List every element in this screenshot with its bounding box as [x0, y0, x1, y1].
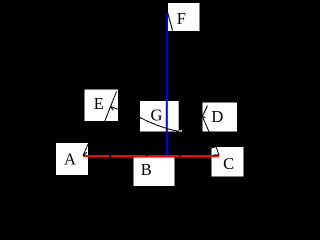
black gap in red line near x=110 — [110, 155, 112, 157]
leader strokes of D — [202, 106, 209, 133]
svg-text:G: G — [151, 106, 163, 125]
black curve through G box — [140, 118, 179, 132]
label box F — [168, 3, 200, 31]
red line AC (horizontal) — [83, 155, 219, 157]
leader arrow of E — [105, 91, 118, 121]
svg-text:B: B — [141, 160, 152, 179]
label box G — [140, 101, 179, 132]
label box E — [85, 90, 119, 122]
svg-text:D: D — [211, 107, 223, 126]
leader arrow of A — [83, 144, 88, 156]
blue line BF (vertical) — [166, 14, 168, 155]
label box C — [212, 147, 244, 177]
label box D — [203, 103, 238, 132]
svg-text:E: E — [94, 94, 104, 113]
svg-text:F: F — [177, 9, 186, 28]
svg-text:A: A — [64, 149, 76, 168]
leader line of F — [168, 13, 173, 30]
svg-text:C: C — [223, 154, 234, 173]
black notch in red line near x=147 — [146, 155, 148, 156]
label box B — [134, 157, 175, 186]
label box A — [56, 143, 88, 175]
white dash continuing curve right of G box — [179, 130, 182, 133]
leader arrow of C — [211, 147, 219, 156]
black gap in red line near x=179.5 — [179, 155, 180, 157]
